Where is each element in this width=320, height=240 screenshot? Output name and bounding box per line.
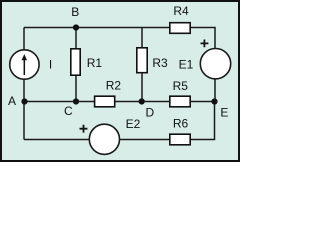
wire left vertical upper: [23, 28, 25, 51]
border frame: [1, 1, 239, 161]
wire left vertical lower: [23, 79, 25, 140]
wire E1 to E: [214, 79, 216, 102]
current source I: [10, 50, 39, 79]
wire R6 to E2: [120, 139, 170, 141]
resistor R2: [95, 96, 115, 107]
svg-text:E1: E1: [179, 58, 194, 72]
node C: [73, 98, 79, 104]
svg-text:C: C: [64, 104, 73, 118]
wire R1 to C: [75, 76, 77, 102]
wire R2 to R5: [115, 101, 169, 103]
wire A to R2: [24, 101, 95, 103]
svg-text:B: B: [71, 5, 79, 19]
svg-text:R4: R4: [173, 4, 189, 18]
svg-text:R2: R2: [106, 79, 122, 93]
wire top to R3: [141, 28, 143, 48]
wire R3 to D: [141, 73, 143, 102]
resistor R4: [170, 23, 190, 34]
svg-text:E2: E2: [126, 117, 141, 131]
plus sign E1: [201, 40, 209, 48]
wire top right to E1: [191, 28, 215, 50]
wire E down to bottom corner: [191, 102, 215, 140]
resistor R1: [71, 49, 80, 75]
wire B to R1: [75, 28, 77, 49]
wire R5 to E: [191, 101, 215, 103]
resistor R6: [170, 134, 190, 145]
svg-text:I: I: [49, 57, 52, 71]
svg-text:R6: R6: [173, 116, 189, 130]
resistor R3: [137, 48, 147, 73]
svg-text:R1: R1: [87, 56, 103, 70]
current source arrow: [22, 54, 27, 75]
wire top horizontal: [24, 27, 169, 29]
svg-text:R5: R5: [173, 79, 189, 93]
resistor R5: [170, 96, 190, 107]
svg-text:R3: R3: [152, 56, 168, 70]
svg-text:D: D: [145, 106, 154, 120]
node A: [21, 98, 27, 104]
plus sign E2: [80, 125, 88, 133]
voltage source E1: [200, 49, 230, 79]
node D: [139, 98, 145, 104]
svg-text:E: E: [220, 105, 228, 119]
node B: [73, 24, 79, 30]
voltage source E2: [89, 124, 119, 154]
wire bottom left: [24, 139, 89, 141]
node E: [211, 98, 217, 104]
svg-text:A: A: [8, 94, 16, 108]
